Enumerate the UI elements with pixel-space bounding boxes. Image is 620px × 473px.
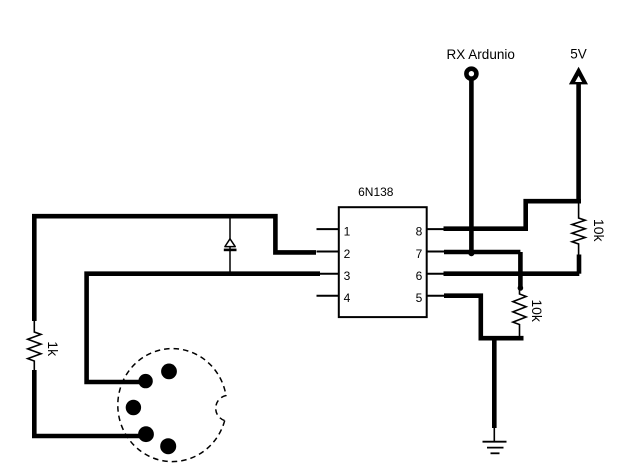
IC pin 2 lead <box>317 251 339 253</box>
connector J1 DIN-5 outline <box>118 349 226 462</box>
wire: RX Arduino vertical <box>469 77 474 253</box>
wire: R2 bottom to pin 6 net <box>577 255 582 274</box>
connector J1 pin dot lower-left <box>138 426 154 442</box>
diode D1 triangle <box>225 239 235 247</box>
connector J1 pin dot upper-left <box>138 374 152 388</box>
svg-text:2: 2 <box>344 247 351 261</box>
wire: left net from 1k top up, across top, down to IC pin 2 <box>34 216 316 321</box>
svg-text:8: 8 <box>416 224 423 238</box>
connector J1 pin dot middle-left <box>126 400 141 415</box>
power symbol: 5V arrow <box>569 67 588 85</box>
IC pin 7 lead <box>427 251 444 253</box>
IC pin 3 lead <box>317 273 339 275</box>
resistor R1 1k <box>28 321 41 370</box>
svg-text:7: 7 <box>416 247 423 261</box>
wire: IC pin 7 horizontal <box>444 250 520 255</box>
svg-text:RX Ardunio: RX Ardunio <box>447 47 515 62</box>
junction: pin7/R3 node <box>518 285 524 291</box>
wire: ground drop <box>492 338 497 428</box>
IC pin 5 lead <box>427 295 444 297</box>
wire: IC pin 3 across, down, to DIN pin 4 (upper-left) <box>87 274 320 382</box>
IC pin 6 lead <box>427 273 444 275</box>
diode D1 cathode bar <box>224 249 237 252</box>
wire: IC pin 6 to pull-up <box>444 271 580 276</box>
wire: 1k bottom to DIN pin 2 (lower-left) <box>34 370 146 436</box>
wire: pin 7 drop to R3 <box>518 252 523 288</box>
resistor R2 10k (pull-up to 5V) <box>572 204 585 255</box>
resistor R3 10k (pin 7 to ground) <box>513 288 526 338</box>
ground symbol <box>483 428 507 453</box>
svg-text:1: 1 <box>344 224 351 238</box>
IC pin 1 lead <box>317 228 339 230</box>
svg-text:4: 4 <box>344 291 351 305</box>
diode D1 vertical lead <box>229 216 231 274</box>
IC U1 6N138 body <box>339 207 427 317</box>
connector J1 pin dot top <box>161 364 177 380</box>
svg-text:5V: 5V <box>570 47 587 62</box>
wire: IC pin 5 down to ground rail <box>444 296 524 339</box>
IC pin 4 lead <box>317 295 339 297</box>
wire: IC pin 8 to 5V branch <box>444 201 582 229</box>
junction: RX to pin 7 net <box>468 250 474 256</box>
svg-text:5: 5 <box>416 291 423 305</box>
connector J1 pin dot bottom <box>160 438 176 454</box>
wire: 5V rail vertical <box>576 83 581 204</box>
svg-text:1k: 1k <box>45 341 61 357</box>
terminal: RX Arduino pad <box>466 69 476 79</box>
svg-text:6: 6 <box>416 269 423 283</box>
IC pin 8 lead <box>427 228 444 230</box>
svg-text:10k: 10k <box>591 219 607 243</box>
svg-text:10k: 10k <box>529 299 545 323</box>
svg-text:6N138: 6N138 <box>358 185 394 199</box>
svg-text:3: 3 <box>344 269 351 283</box>
